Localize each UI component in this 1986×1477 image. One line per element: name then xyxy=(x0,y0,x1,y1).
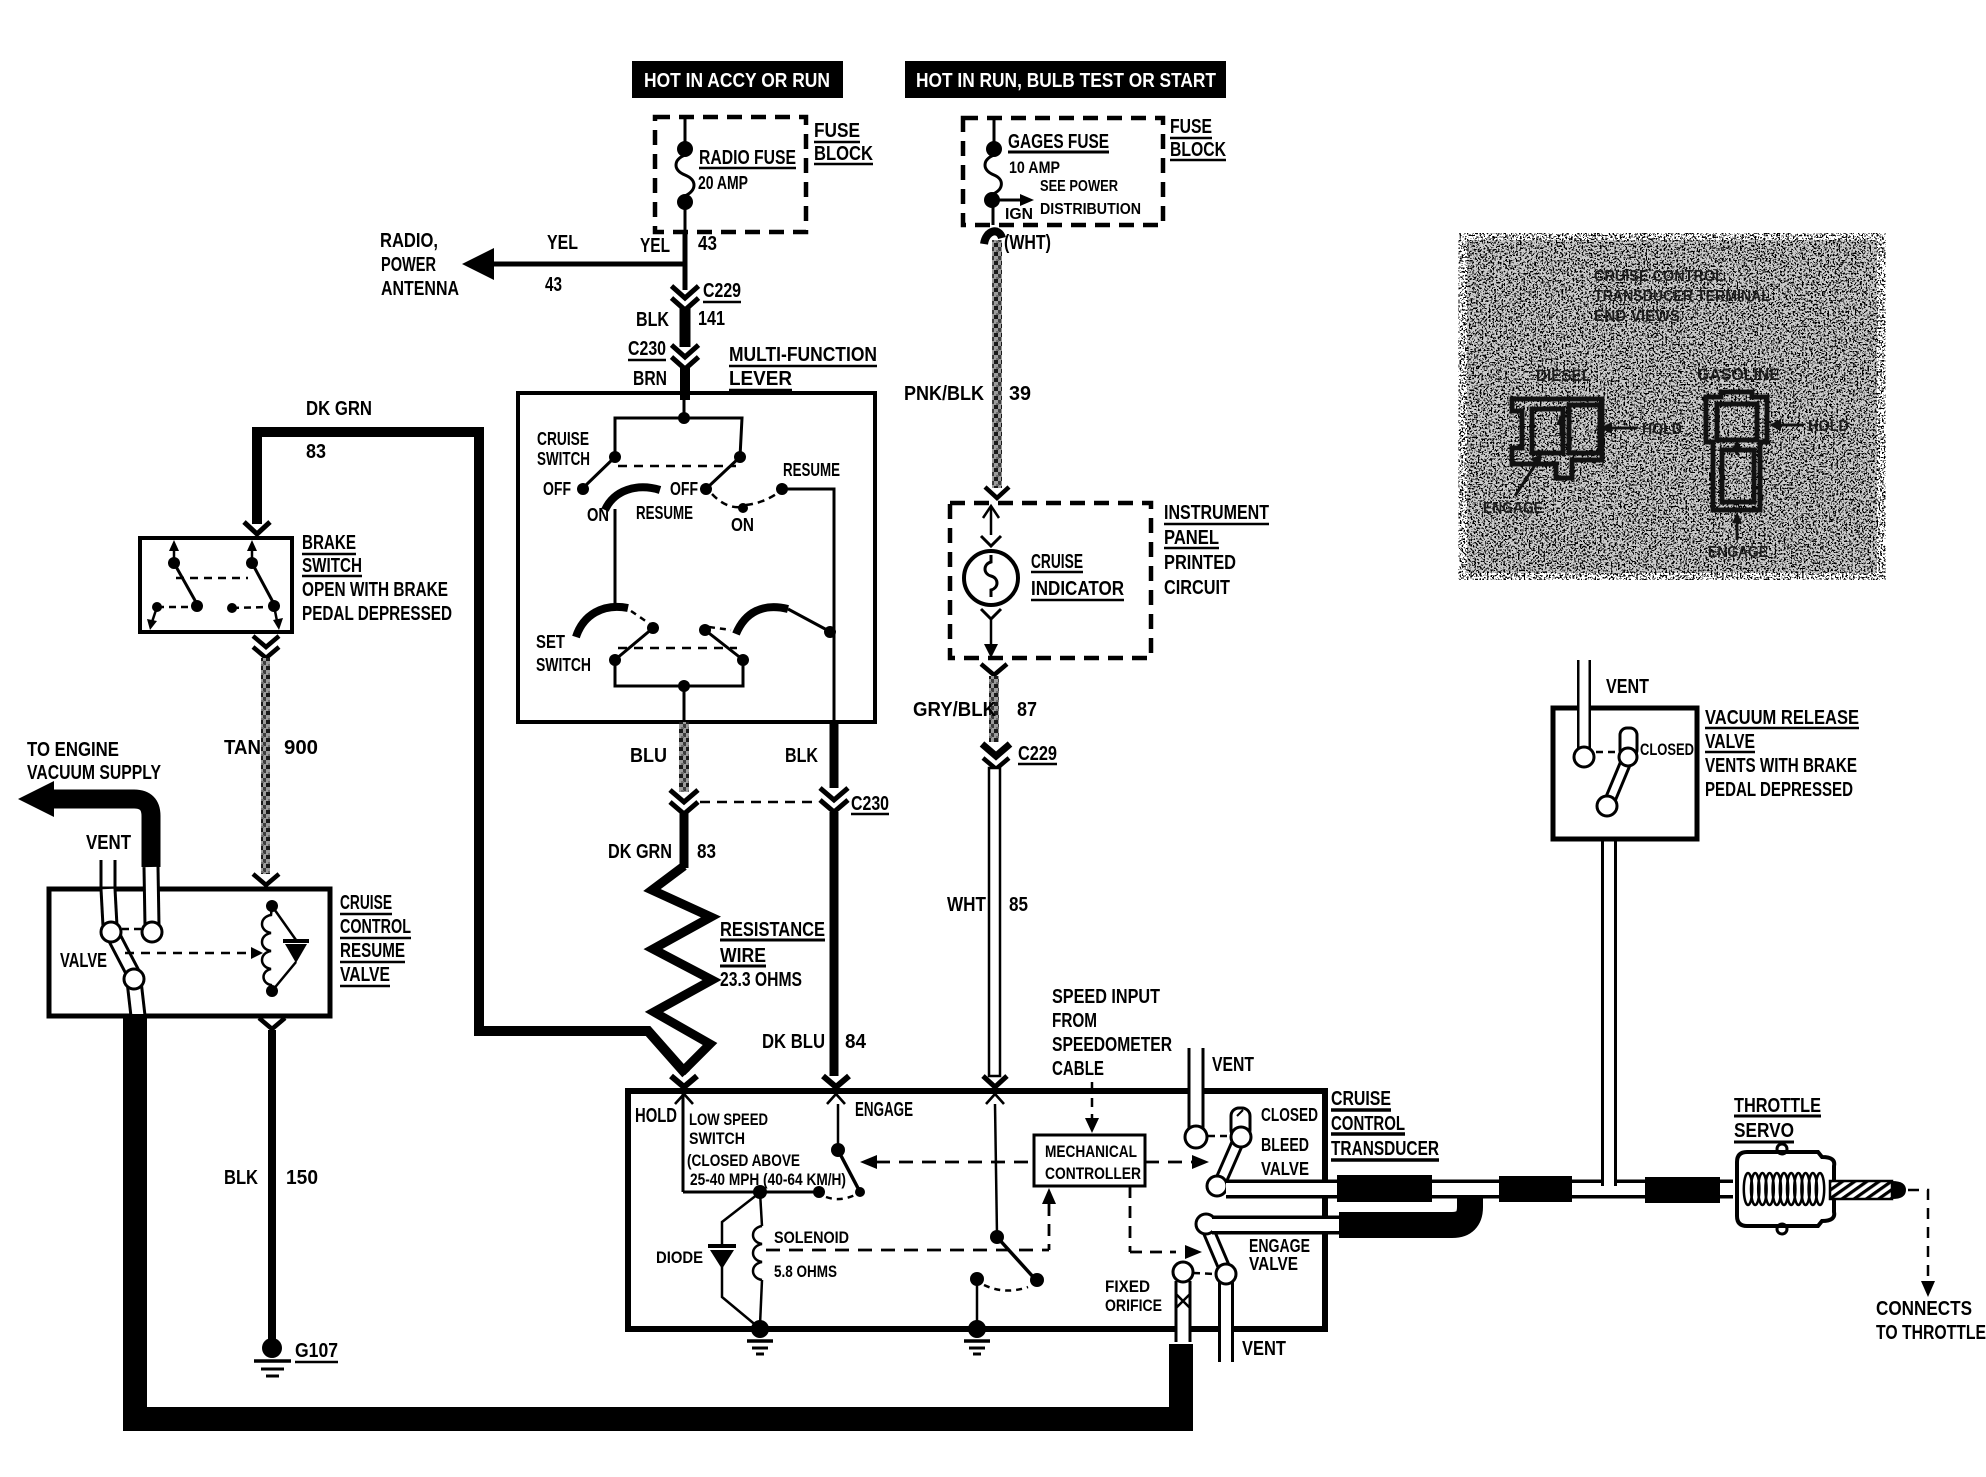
svg-text:TRANSDUCER TERMINAL: TRANSDUCER TERMINAL xyxy=(1594,288,1770,305)
svg-text:BLU: BLU xyxy=(630,745,667,767)
svg-text:DK BLU: DK BLU xyxy=(762,1031,825,1053)
svg-text:VENT: VENT xyxy=(1212,1054,1254,1076)
wire YEL 43 to radio / power antenna xyxy=(487,232,687,296)
svg-text:BLK: BLK xyxy=(224,1167,258,1189)
svg-text:VACUUM RELEASE: VACUUM RELEASE xyxy=(1705,707,1859,729)
svg-text:39: 39 xyxy=(1009,383,1031,405)
connector C230 (lower, both wires) xyxy=(670,788,889,815)
svg-text:43: 43 xyxy=(545,274,562,296)
svg-text:TO ENGINE: TO ENGINE xyxy=(27,739,119,761)
svg-text:MULTI-FUNCTION: MULTI-FUNCTION xyxy=(729,344,877,366)
inset gasoline HOLD arrow xyxy=(1769,418,1849,435)
svg-text:VALVE: VALVE xyxy=(1705,731,1755,753)
svg-text:87: 87 xyxy=(1017,699,1037,721)
svg-text:RESUME: RESUME xyxy=(783,460,840,480)
diode xyxy=(656,1194,758,1327)
svg-text:141: 141 xyxy=(698,308,725,330)
vent tube (resume valve) xyxy=(86,832,131,889)
engage valve xyxy=(1193,1214,1310,1329)
svg-text:VENTS WITH BRAKE: VENTS WITH BRAKE xyxy=(1705,755,1857,777)
dashed link controller to low speed switch xyxy=(860,1155,1034,1169)
svg-text:ENGAGE: ENGAGE xyxy=(1249,1236,1310,1256)
svg-text:(CLOSED ABOVE: (CLOSED ABOVE xyxy=(687,1151,800,1170)
connector into instrument panel xyxy=(985,487,1009,498)
svg-text:VALVE: VALVE xyxy=(340,964,390,986)
svg-text:FUSE: FUSE xyxy=(814,120,860,142)
svg-text:BLK: BLK xyxy=(785,745,818,767)
connector into resume valve xyxy=(253,874,279,885)
svg-text:END VIEWS: END VIEWS xyxy=(1594,308,1680,325)
vacuum hose engage valve branch xyxy=(1212,1196,1470,1225)
svg-text:MECHANICAL: MECHANICAL xyxy=(1045,1142,1137,1161)
svg-text:WHT: WHT xyxy=(947,894,986,916)
svg-text:LOW SPEED: LOW SPEED xyxy=(689,1110,768,1129)
wire BRN into multi-function lever xyxy=(680,367,690,400)
dashed link controller to engage valve xyxy=(1130,1186,1202,1259)
ground (engage switch) xyxy=(964,1320,990,1354)
svg-text:RADIO,: RADIO, xyxy=(380,230,438,252)
svg-text:25-40 MPH (40-64 KM/H): 25-40 MPH (40-64 KM/H) xyxy=(690,1170,846,1189)
svg-text:CLOSED: CLOSED xyxy=(1261,1105,1318,1125)
svg-text:SERVO: SERVO xyxy=(1734,1120,1794,1142)
wire entry into transducer (resistance wire) xyxy=(671,1076,697,1104)
svg-text:PANEL: PANEL xyxy=(1164,527,1219,549)
wire WHT 85 xyxy=(947,768,1028,1076)
vent tube (transducer top) xyxy=(1185,1048,1254,1148)
svg-text:20 AMP: 20 AMP xyxy=(698,173,748,193)
svg-text:23.3 OHMS: 23.3 OHMS xyxy=(720,969,802,991)
vacuum release valve mechanism xyxy=(1574,660,1694,816)
svg-text:CONTROL: CONTROL xyxy=(1331,1113,1405,1135)
svg-text:VALVE: VALVE xyxy=(1249,1254,1298,1274)
svg-text:CONTROL: CONTROL xyxy=(340,916,411,938)
wire TAN 900 (stippled) xyxy=(224,658,318,874)
radio fuse 20 AMP xyxy=(676,117,796,232)
svg-text:RESUME: RESUME xyxy=(636,503,693,523)
brake switch box xyxy=(140,532,452,632)
svg-text:RADIO FUSE: RADIO FUSE xyxy=(699,147,796,169)
resume valve mechanism xyxy=(60,867,263,1016)
svg-text:PEDAL DEPRESSED: PEDAL DEPRESSED xyxy=(302,603,452,625)
svg-text:HOLD: HOLD xyxy=(635,1105,677,1127)
gages fuse 10 AMP xyxy=(984,118,1141,225)
svg-text:C229: C229 xyxy=(703,280,741,302)
svg-text:RESISTANCE: RESISTANCE xyxy=(720,919,825,941)
power feed banner: HOT IN ACCY OR RUN xyxy=(632,61,843,98)
wire entry into transducer (WHT) xyxy=(983,1076,1007,1104)
inset gasoline ENGAGE arrow xyxy=(1708,512,1768,561)
multi-function lever box xyxy=(518,344,877,722)
wire DK GRN 83 (left loop from lever to transducer) xyxy=(257,398,686,1074)
svg-text:VALVE: VALVE xyxy=(1261,1159,1309,1179)
svg-text:BLEED: BLEED xyxy=(1261,1135,1309,1155)
svg-text:DK GRN: DK GRN xyxy=(306,398,372,420)
svg-text:DIESEL: DIESEL xyxy=(1536,366,1591,385)
svg-text:C230: C230 xyxy=(851,793,889,815)
connector C229 xyxy=(672,280,742,310)
inset diesel ENGAGE arrow xyxy=(1483,454,1543,517)
svg-text:CRUISE: CRUISE xyxy=(1331,1088,1391,1110)
svg-text:VACUUM SUPPLY: VACUUM SUPPLY xyxy=(27,762,162,784)
svg-text:84: 84 xyxy=(845,1031,867,1053)
arrow to RADIO, POWER ANTENNA xyxy=(380,230,494,300)
cruise control resume valve box xyxy=(49,889,411,1016)
svg-text:83: 83 xyxy=(697,841,716,863)
svg-text:10 AMP: 10 AMP xyxy=(1009,158,1060,177)
svg-text:CIRCUIT: CIRCUIT xyxy=(1164,577,1230,599)
svg-text:POWER: POWER xyxy=(381,254,436,276)
svg-text:VENT: VENT xyxy=(86,832,131,854)
svg-text:PRINTED: PRINTED xyxy=(1164,552,1236,574)
svg-text:DIODE: DIODE xyxy=(656,1248,703,1267)
ground G107 xyxy=(254,1338,338,1376)
svg-text:CONTROLLER: CONTROLLER xyxy=(1045,1164,1141,1183)
svg-text:VENT: VENT xyxy=(1242,1338,1286,1360)
svg-text:SWITCH: SWITCH xyxy=(537,449,590,469)
connector below instrument panel xyxy=(981,664,1007,675)
svg-text:CONNECTS: CONNECTS xyxy=(1876,1298,1972,1320)
svg-text:BLOCK: BLOCK xyxy=(814,143,873,165)
svg-text:VALVE: VALVE xyxy=(60,950,107,972)
wire BLK 141 xyxy=(636,308,725,347)
vent tube (below transducer) xyxy=(1226,1329,1286,1362)
set switch xyxy=(536,607,836,722)
vacuum release valve box xyxy=(1553,707,1859,839)
dashed link controller to solenoid xyxy=(766,1188,1056,1250)
svg-text:SEE POWER: SEE POWER xyxy=(1040,178,1118,195)
svg-text:5.8 OHMS: 5.8 OHMS xyxy=(774,1262,837,1281)
wire BLK from lever xyxy=(785,722,834,788)
svg-text:C229: C229 xyxy=(1018,743,1057,765)
low speed switch xyxy=(635,1091,913,1199)
svg-text:OPEN WITH BRAKE: OPEN WITH BRAKE xyxy=(302,579,448,601)
svg-text:INSTRUMENT: INSTRUMENT xyxy=(1164,502,1269,524)
inset photo: cruise control transducer terminal end views xyxy=(1467,240,1877,573)
throttle servo xyxy=(1734,1095,1906,1234)
svg-text:WIRE: WIRE xyxy=(720,945,766,967)
svg-text:FIXED: FIXED xyxy=(1105,1277,1150,1296)
connector C229 (lower) xyxy=(982,743,1057,769)
svg-text:RESUME: RESUME xyxy=(340,940,405,962)
svg-text:GAGES FUSE: GAGES FUSE xyxy=(1008,131,1109,153)
resistance wire 23.3 ohms (zigzag resistor) xyxy=(652,866,825,1072)
wire YEL 43 from fuse to C229 xyxy=(640,232,717,290)
cruise switch (on/off/resume) xyxy=(537,400,840,722)
svg-text:SPEEDOMETER: SPEEDOMETER xyxy=(1052,1034,1172,1056)
svg-text:TO THROTTLE: TO THROTTLE xyxy=(1876,1322,1986,1344)
dashed link servo to throttle xyxy=(1876,1190,1986,1344)
connector into brake switch xyxy=(244,522,270,534)
vacuum hose (resume valve to fixed orifice, bottom run) xyxy=(135,1014,1181,1419)
svg-text:ANTENNA: ANTENNA xyxy=(381,278,459,300)
wire BLU (stippled) xyxy=(630,722,689,792)
svg-text:ENGAGE: ENGAGE xyxy=(1483,500,1543,517)
svg-text:FUSE: FUSE xyxy=(1170,116,1212,138)
svg-text:SPEED INPUT: SPEED INPUT xyxy=(1052,986,1160,1008)
svg-text:ENGAGE: ENGAGE xyxy=(1708,544,1768,561)
power feed banner: HOT IN RUN, BULB TEST OR START xyxy=(905,61,1226,98)
svg-text:LEVER: LEVER xyxy=(729,368,793,390)
speed input from speedometer cable xyxy=(1052,986,1172,1133)
svg-text:TRANSDUCER: TRANSDUCER xyxy=(1331,1138,1439,1160)
svg-text:TAN: TAN xyxy=(224,737,261,759)
closed bleed valve xyxy=(1207,1105,1318,1196)
svg-text:(WHT): (WHT) xyxy=(1004,232,1051,254)
svg-text:CRUISE: CRUISE xyxy=(1031,551,1083,573)
svg-text:C230: C230 xyxy=(628,338,666,360)
svg-text:INDICATOR: INDICATOR xyxy=(1031,578,1124,600)
svg-text:YEL: YEL xyxy=(547,232,578,254)
engage hold switch (middle) xyxy=(970,1104,1044,1327)
svg-text:150: 150 xyxy=(286,1167,318,1189)
svg-text:SET: SET xyxy=(536,632,565,652)
mechanical controller xyxy=(1034,1135,1145,1186)
svg-text:CABLE: CABLE xyxy=(1052,1058,1104,1080)
svg-text:GRY/BLK: GRY/BLK xyxy=(913,699,997,721)
svg-text:HOLD: HOLD xyxy=(1808,418,1849,435)
svg-text:YEL: YEL xyxy=(640,235,670,257)
svg-text:HOLD: HOLD xyxy=(1642,421,1682,438)
svg-text:900: 900 xyxy=(284,737,318,759)
fixed orifice xyxy=(1105,1262,1193,1342)
inset gasoline connector end view xyxy=(1697,365,1780,510)
wire GRY/BLK 87 (stippled) xyxy=(913,676,1037,742)
svg-text:THROTTLE: THROTTLE xyxy=(1734,1095,1821,1117)
resume valve solenoid coil and diode xyxy=(262,900,309,997)
brake switch contacts xyxy=(147,540,283,630)
fuse block 2 (dashed box) xyxy=(963,116,1226,225)
svg-text:DK GRN: DK GRN xyxy=(608,841,672,863)
inset diesel HOLD arrow xyxy=(1600,421,1682,438)
svg-text:CRUISE: CRUISE xyxy=(340,892,392,914)
svg-text:GASOLINE: GASOLINE xyxy=(1697,365,1780,384)
instrument panel printed circuit (dashed box) xyxy=(950,502,1269,658)
connector below brake switch xyxy=(253,636,279,658)
svg-text:43: 43 xyxy=(698,233,717,255)
connector C230 xyxy=(628,338,699,390)
ground (solenoid) xyxy=(747,1320,773,1354)
dashed link controller to bleed valve xyxy=(1145,1155,1209,1169)
svg-text:FROM: FROM xyxy=(1052,1010,1097,1032)
svg-text:SOLENOID: SOLENOID xyxy=(774,1228,849,1247)
svg-text:SWITCH: SWITCH xyxy=(302,555,362,577)
svg-text:G107: G107 xyxy=(295,1340,338,1362)
svg-text:CRUISE: CRUISE xyxy=(537,429,589,449)
svg-text:BRAKE: BRAKE xyxy=(302,532,356,554)
svg-text:ENGAGE: ENGAGE xyxy=(855,1099,913,1121)
solenoid 5.8 ohms xyxy=(753,1191,849,1325)
pipe to engine vacuum supply xyxy=(18,739,162,867)
svg-text:HOT IN ACCY OR RUN: HOT IN ACCY OR RUN xyxy=(644,70,830,92)
vacuum hose bleed valve to throttle servo xyxy=(1226,1175,1733,1203)
wire entry into transducer (DK BLU engage) xyxy=(823,1076,849,1104)
svg-text:PEDAL DEPRESSED: PEDAL DEPRESSED xyxy=(1705,779,1853,801)
svg-text:HOT IN RUN, BULB TEST OR STAR: HOT IN RUN, BULB TEST OR START xyxy=(916,70,1216,92)
svg-text:SWITCH: SWITCH xyxy=(689,1129,745,1148)
wire BLK 150 to ground xyxy=(224,1030,318,1340)
svg-text:ON: ON xyxy=(731,515,754,535)
svg-text:OFF: OFF xyxy=(670,479,698,499)
svg-text:CRUISE CONTROL: CRUISE CONTROL xyxy=(1594,268,1724,285)
svg-text:VENT: VENT xyxy=(1606,676,1649,698)
wire DK BLU 84 xyxy=(762,812,867,1076)
svg-text:ORIFICE: ORIFICE xyxy=(1105,1296,1162,1315)
svg-text:83: 83 xyxy=(306,441,326,463)
wire PNK/BLK 39 (stippled) xyxy=(904,231,1051,488)
tube from vacuum release valve down to hose xyxy=(1601,840,1617,1186)
inset diesel connector end view xyxy=(1512,366,1602,478)
svg-text:CLOSED: CLOSED xyxy=(1640,740,1694,759)
svg-text:SWITCH: SWITCH xyxy=(536,655,591,675)
wire DK GRN 83 xyxy=(608,812,716,868)
svg-text:BLOCK: BLOCK xyxy=(1170,139,1226,161)
svg-text:BRN: BRN xyxy=(633,368,667,390)
svg-text:OFF: OFF xyxy=(543,479,571,499)
svg-text:DISTRIBUTION: DISTRIBUTION xyxy=(1040,201,1141,218)
svg-text:PNK/BLK: PNK/BLK xyxy=(904,383,984,405)
cruise indicator bulb xyxy=(964,506,1124,658)
fuse block 1 (dashed box) xyxy=(655,117,873,232)
svg-text:BLK: BLK xyxy=(636,309,669,331)
svg-text:85: 85 xyxy=(1009,894,1028,916)
connector below resume valve xyxy=(259,1018,285,1029)
svg-text:IGN: IGN xyxy=(1005,206,1033,223)
cruise control transducer box xyxy=(628,1088,1439,1329)
svg-text:ON: ON xyxy=(587,505,609,525)
